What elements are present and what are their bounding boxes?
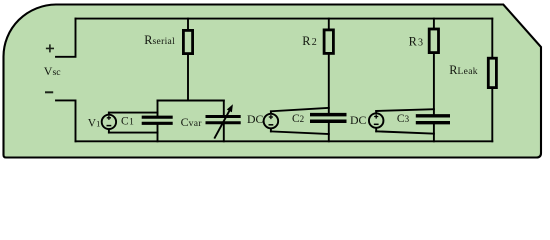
resistor RLeak <box>488 58 496 87</box>
wire: DC source 3 parallel loop bottom rail <box>376 131 434 133</box>
wire: RLeak vertical top segment <box>491 19 493 58</box>
svg-text:Rserial: Rserial <box>144 33 175 47</box>
wire: R3 vertical from box to C3 top plate <box>433 54 435 115</box>
resistor Rserial <box>183 30 192 53</box>
wire: Cvar vertical top <box>223 101 225 116</box>
resistor R2 <box>324 30 333 54</box>
source DC (branch 3) circle <box>369 113 384 128</box>
capacitor C2 plates <box>310 115 347 122</box>
wire: RLeak vertical bottom segment <box>491 87 493 141</box>
wire: DC source 2 top stub <box>270 111 272 114</box>
svg-text:V1: V1 <box>88 118 101 130</box>
capacitor Cvar plates <box>206 117 241 123</box>
svg-text:C2: C2 <box>292 113 304 125</box>
capacitor C3 plates <box>416 116 450 123</box>
wire: Cvar vertical bottom <box>223 124 225 141</box>
wire: DC source 3 bottom stub <box>375 128 377 132</box>
wire: C1 branch vertical bottom <box>157 125 159 142</box>
wire: DC source 2 bottom stub <box>270 128 272 131</box>
wire: DC source 3 parallel loop top rail <box>376 109 434 111</box>
capacitor C1 plates <box>142 117 173 123</box>
source V1 circle <box>102 115 116 129</box>
green panel background shape <box>3 5 541 158</box>
svg-text:DC: DC <box>350 113 367 127</box>
wire: C3 branch vertical bottom <box>433 124 435 141</box>
capacitor Cvar arrow <box>214 104 233 138</box>
wire: Rserial vertical top segment <box>187 19 189 30</box>
wire: V1 bottom stub <box>108 129 110 133</box>
wire: C2 branch vertical bottom <box>328 123 330 142</box>
wire: C1 branch vertical top <box>157 101 159 117</box>
source DC (branch 2) circle <box>264 114 279 129</box>
wire: bottom rail <box>76 140 493 142</box>
wire: R3 vertical top segment <box>433 19 435 30</box>
wire: V1 parallel loop bottom rail <box>109 132 158 134</box>
wire: DC source 2 parallel loop top rail <box>271 108 329 111</box>
wire: Rserial vertical bottom segment to node wire <box>187 55 189 101</box>
svg-text:Cvar: Cvar <box>181 115 203 129</box>
svg-text:Vsc: Vsc <box>44 64 61 78</box>
wire: node wire of branch 1 <box>158 100 224 102</box>
label - (Vsc negative terminal) <box>45 91 53 93</box>
wire: DC source 2 parallel loop bottom rail <box>271 131 329 134</box>
wire: left drop from top rail to + terminal stub <box>56 19 76 57</box>
wire: V1 parallel loop top rail <box>109 112 158 114</box>
wire: top rail <box>76 18 493 20</box>
svg-text:C1: C1 <box>121 116 134 128</box>
label + (Vsc positive terminal) <box>46 44 54 52</box>
svg-text:C3: C3 <box>397 113 410 125</box>
wire: V1 top stub <box>108 113 110 115</box>
wire: R2 vertical from box to C2 top plate <box>328 55 330 114</box>
wire: R2 vertical top segment <box>328 19 330 30</box>
svg-text:R3: R3 <box>409 35 423 49</box>
wire: DC source 3 top stub <box>375 111 377 114</box>
wire: - terminal stub down to bottom rail <box>56 100 76 141</box>
resistor R3 <box>429 29 438 53</box>
svg-text:R2: R2 <box>302 34 316 48</box>
svg-text:DC: DC <box>247 112 264 126</box>
